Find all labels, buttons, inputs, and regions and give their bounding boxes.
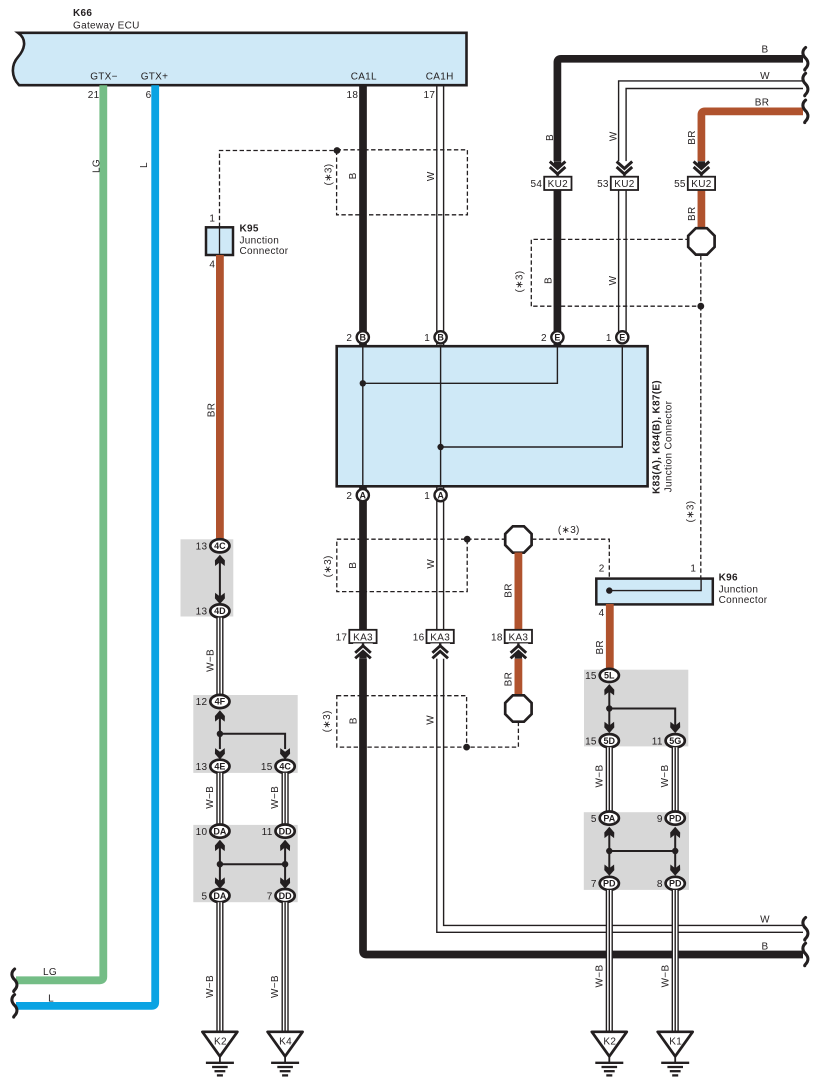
svg-text:KU2: KU2	[614, 179, 634, 190]
connector box 54 KU2	[530, 177, 571, 191]
chevron arrows above 53 KU2	[615, 161, 635, 176]
break symbol B bottom right	[803, 943, 808, 966]
svg-text:5: 5	[202, 891, 208, 902]
dashed link middle box to octagon and K96 pin2	[467, 539, 609, 578]
svg-text:PD: PD	[669, 813, 682, 823]
svg-text:B: B	[360, 333, 367, 343]
arrow down to PD low right	[670, 865, 680, 876]
svg-text:1: 1	[606, 333, 612, 344]
junction dot PA	[606, 848, 612, 854]
svg-text:(∗3): (∗3)	[322, 710, 333, 732]
svg-text:GTX−: GTX−	[90, 72, 118, 83]
wire L blue from GTX+	[16, 85, 155, 1006]
terminal 15 5L	[585, 669, 619, 682]
svg-text:K96: K96	[719, 573, 738, 584]
arrow up to PD top	[670, 827, 680, 838]
junction dot PD	[672, 848, 678, 854]
ground K2 right	[592, 1032, 627, 1076]
svg-text:L: L	[48, 994, 54, 1005]
break symbol LG left	[12, 969, 17, 992]
svg-text:BR: BR	[687, 130, 698, 145]
svg-text:4: 4	[599, 608, 605, 619]
svg-text:54: 54	[530, 179, 542, 190]
svg-text:K2: K2	[214, 1036, 227, 1047]
wire W-B PD to ground K1	[672, 890, 679, 1032]
arrow up to 5L	[604, 684, 614, 695]
svg-text:BR: BR	[504, 672, 515, 687]
chevron arrows above 55 KU2	[692, 161, 712, 176]
chevron arrows below 16 KA3	[430, 643, 450, 658]
arrow up to DA	[215, 840, 225, 851]
arrow down to 4C	[280, 748, 290, 759]
svg-text:4F: 4F	[215, 697, 226, 707]
svg-text:(∗3): (∗3)	[685, 501, 696, 523]
svg-text:1: 1	[690, 564, 696, 575]
wire B CA1L vertical upper	[359, 85, 367, 346]
svg-text:B: B	[762, 941, 769, 952]
pin circle 2A	[346, 489, 368, 502]
svg-text:B: B	[437, 333, 444, 343]
octagon shield lower	[505, 695, 531, 721]
svg-text:W: W	[426, 171, 437, 181]
svg-text:B: B	[348, 172, 359, 179]
svg-text:E: E	[619, 333, 625, 343]
junction dot top dashed box	[334, 147, 341, 154]
svg-text:17: 17	[423, 90, 435, 101]
svg-text:11: 11	[262, 827, 273, 838]
svg-text:LG: LG	[91, 159, 102, 173]
svg-text:W−B: W−B	[594, 765, 605, 788]
terminal 11 5G	[652, 734, 685, 747]
terminal 15 5D	[585, 734, 619, 747]
internal branch to 2E	[363, 346, 558, 383]
svg-text:DD: DD	[279, 826, 292, 836]
octagon shield middle	[505, 526, 531, 552]
pin circle 2B	[346, 331, 368, 344]
gray block 4C 4D	[181, 539, 234, 616]
svg-text:7: 7	[267, 891, 273, 902]
pin circle 1A	[424, 489, 446, 502]
connector box 16 KA3	[413, 630, 454, 644]
ground K4	[268, 1032, 303, 1076]
svg-text:PD: PD	[669, 879, 682, 889]
svg-text:DA: DA	[213, 826, 226, 836]
svg-text:Junction Connector: Junction Connector	[663, 400, 674, 492]
svg-text:2: 2	[346, 491, 352, 502]
svg-text:A: A	[437, 490, 444, 500]
wire BR from K95 pin4	[216, 255, 224, 540]
svg-text:W−B: W−B	[270, 975, 281, 998]
wire W top right line1	[619, 81, 803, 334]
octagon shield top right	[688, 228, 714, 254]
arrow up to PA	[604, 827, 614, 838]
svg-text:E: E	[554, 333, 560, 343]
pin circle 2E	[541, 331, 563, 344]
svg-text:Gateway ECU: Gateway ECU	[73, 20, 140, 31]
arrow down to 5D	[604, 722, 614, 733]
break symbol L left	[12, 995, 17, 1018]
ECU K66 box	[13, 33, 467, 85]
wire W-B 5D to PA	[606, 747, 613, 812]
junction dot top right dashed box	[697, 303, 704, 310]
top dashed box	[337, 150, 468, 215]
svg-text:W: W	[426, 715, 437, 725]
wire W top right line2	[626, 89, 803, 335]
dashed link octagon2 to bottom dashed box	[467, 722, 518, 747]
svg-text:K1: K1	[669, 1036, 682, 1047]
internal line 2B to 2A	[362, 346, 364, 486]
svg-text:W−B: W−B	[270, 786, 281, 809]
middle dashed box	[337, 539, 467, 591]
svg-text:15: 15	[261, 762, 273, 773]
junction dot DD	[282, 861, 288, 867]
svg-text:55: 55	[674, 179, 686, 190]
svg-text:W: W	[608, 131, 619, 141]
terminal 9 PD	[657, 812, 685, 825]
svg-text:BR: BR	[206, 403, 217, 418]
junction dot 4F branch	[217, 731, 223, 737]
svg-text:16: 16	[413, 632, 425, 643]
svg-text:W−B: W−B	[205, 786, 216, 809]
svg-text:17: 17	[336, 632, 348, 643]
arrow down to 5G	[670, 722, 680, 733]
junction connector K95 box	[206, 227, 233, 255]
svg-text:8: 8	[657, 879, 663, 890]
wire LG green from GTX-	[16, 85, 103, 980]
svg-text:KU2: KU2	[548, 179, 568, 190]
wire BR octagon to 18 KA3	[515, 553, 523, 631]
break symbol BR top right	[803, 100, 808, 123]
link lines PA PD	[609, 832, 675, 869]
wire W-B 4D to 4F	[216, 618, 223, 696]
svg-text:W: W	[426, 559, 437, 569]
svg-text:W−B: W−B	[660, 965, 671, 988]
svg-text:18: 18	[491, 632, 503, 643]
svg-text:4C: 4C	[279, 762, 291, 772]
svg-text:5G: 5G	[669, 736, 681, 746]
wire BR top right	[701, 111, 803, 229]
svg-text:Junction: Junction	[240, 235, 280, 246]
connector box 53 KU2	[597, 177, 638, 191]
terminal 15 4C	[261, 760, 295, 773]
svg-text:21: 21	[88, 90, 100, 101]
terminal 7 PD	[591, 877, 619, 890]
break symbol B top right	[803, 48, 808, 71]
gray block 4F 4E 4C	[193, 695, 297, 773]
svg-text:KA3: KA3	[508, 632, 528, 643]
svg-text:PD: PD	[603, 879, 616, 889]
svg-text:DA: DA	[213, 891, 226, 901]
terminal 13 4D	[196, 604, 230, 617]
svg-text:9: 9	[657, 814, 663, 825]
svg-text:15: 15	[585, 671, 597, 682]
svg-text:B: B	[348, 562, 359, 569]
svg-text:W: W	[760, 71, 770, 82]
link lines 4F to 4E and 4C	[220, 715, 285, 749]
junction dot DA	[217, 861, 223, 867]
gray block DA DD	[193, 825, 297, 902]
svg-text:(∗3): (∗3)	[323, 555, 334, 577]
break symbol W top right	[803, 73, 808, 96]
svg-text:6: 6	[146, 90, 152, 101]
wire W-B DD to ground K4	[282, 902, 289, 1032]
arrow up to 4F	[215, 710, 225, 721]
terminal 13 4C	[196, 539, 230, 552]
svg-text:W: W	[760, 914, 770, 925]
svg-text:2: 2	[599, 564, 605, 575]
arrow down to DA low	[215, 877, 225, 888]
connector box 55 KU2	[674, 177, 715, 191]
bottom dashed box	[337, 696, 467, 747]
junction connector K83/K84/K87 box	[337, 346, 648, 486]
svg-text:5L: 5L	[604, 671, 615, 681]
junction dot 5L branch	[606, 705, 612, 711]
link line 4C to 4D	[219, 560, 221, 597]
junction dot bottom dashed box	[463, 744, 470, 751]
svg-text:4: 4	[209, 260, 215, 271]
svg-text:B: B	[349, 717, 360, 724]
arrow down to 4D	[215, 593, 225, 604]
svg-text:13: 13	[196, 607, 208, 618]
link lines DA DD cross	[220, 845, 285, 882]
svg-text:Connector: Connector	[240, 246, 289, 257]
arrow up to DD	[280, 840, 290, 851]
chevron arrows above 54 KU2	[548, 161, 568, 176]
gray block PA PD	[584, 812, 689, 890]
svg-text:10: 10	[196, 827, 208, 838]
svg-text:4D: 4D	[214, 606, 226, 616]
svg-text:Junction: Junction	[719, 585, 759, 596]
internal line 1B to 1A	[440, 346, 442, 486]
junction dot internal 1B	[437, 444, 443, 450]
svg-text:1: 1	[209, 214, 215, 225]
terminal 7 DD	[267, 889, 295, 902]
link lines 5L to 5D 5G	[609, 689, 675, 727]
wire W CA1H lower run to right edge line2	[444, 486, 803, 925]
svg-text:W: W	[608, 275, 619, 285]
wire W-B PD to ground K2 right	[606, 890, 613, 1032]
svg-text:K4: K4	[279, 1036, 292, 1047]
svg-text:BR: BR	[755, 97, 770, 108]
ground K1	[658, 1032, 693, 1076]
ground K2 left	[202, 1032, 237, 1076]
svg-text:A: A	[360, 490, 367, 500]
gray block 5L 5D 5G	[584, 670, 688, 747]
svg-text:13: 13	[196, 762, 208, 773]
svg-text:K95: K95	[240, 224, 259, 235]
svg-text:BR: BR	[504, 583, 515, 598]
wire W-B 4E to DA	[216, 773, 223, 825]
arrow down to DD low	[280, 877, 290, 888]
chevron arrows below 17 KA3	[353, 643, 373, 658]
svg-text:LG: LG	[43, 967, 57, 978]
svg-text:5: 5	[591, 814, 597, 825]
top right dashed box	[531, 239, 701, 306]
junction connector K96 box	[596, 579, 713, 605]
wire B top right horizontal	[557, 59, 803, 346]
svg-text:7: 7	[591, 879, 597, 890]
svg-text:4E: 4E	[214, 762, 225, 772]
terminal 11 DD	[262, 825, 295, 838]
svg-text:K83(A), K84(B), K87(E): K83(A), K84(B), K87(E)	[652, 380, 663, 494]
svg-text:5D: 5D	[604, 736, 616, 746]
svg-text:KA3: KA3	[430, 632, 450, 643]
svg-text:(∗3): (∗3)	[324, 164, 335, 186]
chevron arrows below 18 KA3	[509, 643, 529, 658]
svg-text:BR: BR	[687, 206, 698, 221]
svg-text:18: 18	[346, 90, 358, 101]
arrow down to PD low left	[604, 865, 614, 876]
wire W-B 4C to DD	[282, 773, 289, 825]
svg-text:W−B: W−B	[660, 765, 671, 788]
terminal 12 4F	[196, 695, 230, 708]
svg-text:4C: 4C	[214, 541, 226, 551]
arrow up to 4C	[215, 555, 225, 566]
terminal 5 PA	[591, 812, 619, 825]
svg-text:GTX+: GTX+	[141, 72, 169, 83]
wire W CA1H vertical upper line2	[443, 85, 445, 346]
wire BR from K96 pin4	[606, 604, 614, 670]
svg-text:KU2: KU2	[691, 179, 711, 190]
junction dot middle dashed box	[464, 536, 471, 543]
svg-text:B: B	[762, 44, 769, 55]
svg-text:Connector: Connector	[719, 595, 768, 606]
wire W CA1H vertical upper line1	[436, 85, 438, 346]
internal branch to 1E	[441, 346, 623, 447]
svg-text:W−B: W−B	[595, 965, 606, 988]
connector box 17 KA3	[336, 630, 377, 644]
terminal 8 PD	[657, 877, 685, 890]
svg-text:1: 1	[424, 333, 430, 344]
pin circle 1E	[606, 331, 628, 344]
wire B CA1L lower run to right edge	[363, 486, 803, 954]
svg-text:13: 13	[196, 542, 208, 553]
svg-text:KA3: KA3	[353, 632, 373, 643]
svg-text:12: 12	[196, 697, 208, 708]
svg-text:L: L	[139, 162, 150, 168]
junction dot internal 2B	[360, 380, 366, 386]
svg-text:(∗3): (∗3)	[515, 271, 526, 293]
wire W CA1H lower run to right edge line1	[437, 486, 803, 932]
svg-text:CA1L: CA1L	[351, 72, 377, 83]
svg-text:W−B: W−B	[205, 649, 216, 672]
svg-text:2: 2	[541, 333, 547, 344]
svg-text:DD: DD	[279, 891, 292, 901]
terminal 10 DA	[196, 825, 230, 838]
svg-text:K66: K66	[73, 8, 92, 19]
arrow down to 4E	[215, 748, 225, 759]
pin circle 1B	[424, 331, 446, 344]
svg-text:1: 1	[424, 491, 430, 502]
svg-text:K2: K2	[603, 1036, 616, 1047]
svg-text:B: B	[544, 277, 555, 284]
wire BR 18 KA3 to octagon2	[515, 642, 523, 697]
svg-text:53: 53	[597, 179, 609, 190]
svg-text:2: 2	[346, 333, 352, 344]
dashed line from octagon to K96 pin1	[700, 306, 702, 578]
svg-text:PA: PA	[603, 813, 615, 823]
connector box 18 KA3	[491, 630, 532, 644]
svg-text:15: 15	[585, 736, 597, 747]
svg-text:CA1H: CA1H	[426, 72, 454, 83]
svg-text:B: B	[545, 134, 556, 141]
svg-text:(∗3): (∗3)	[558, 525, 580, 536]
dashed riser from K95 pin1	[220, 151, 338, 228]
wire W-B DA to ground K2	[216, 902, 223, 1032]
break symbol W bottom right	[803, 918, 808, 941]
wire W-B 5G to PD	[672, 747, 679, 812]
svg-text:11: 11	[652, 736, 663, 747]
terminal 13 4E	[196, 760, 230, 773]
terminal 5 DA	[202, 889, 230, 902]
svg-text:W−B: W−B	[205, 975, 216, 998]
svg-text:BR: BR	[595, 640, 606, 655]
